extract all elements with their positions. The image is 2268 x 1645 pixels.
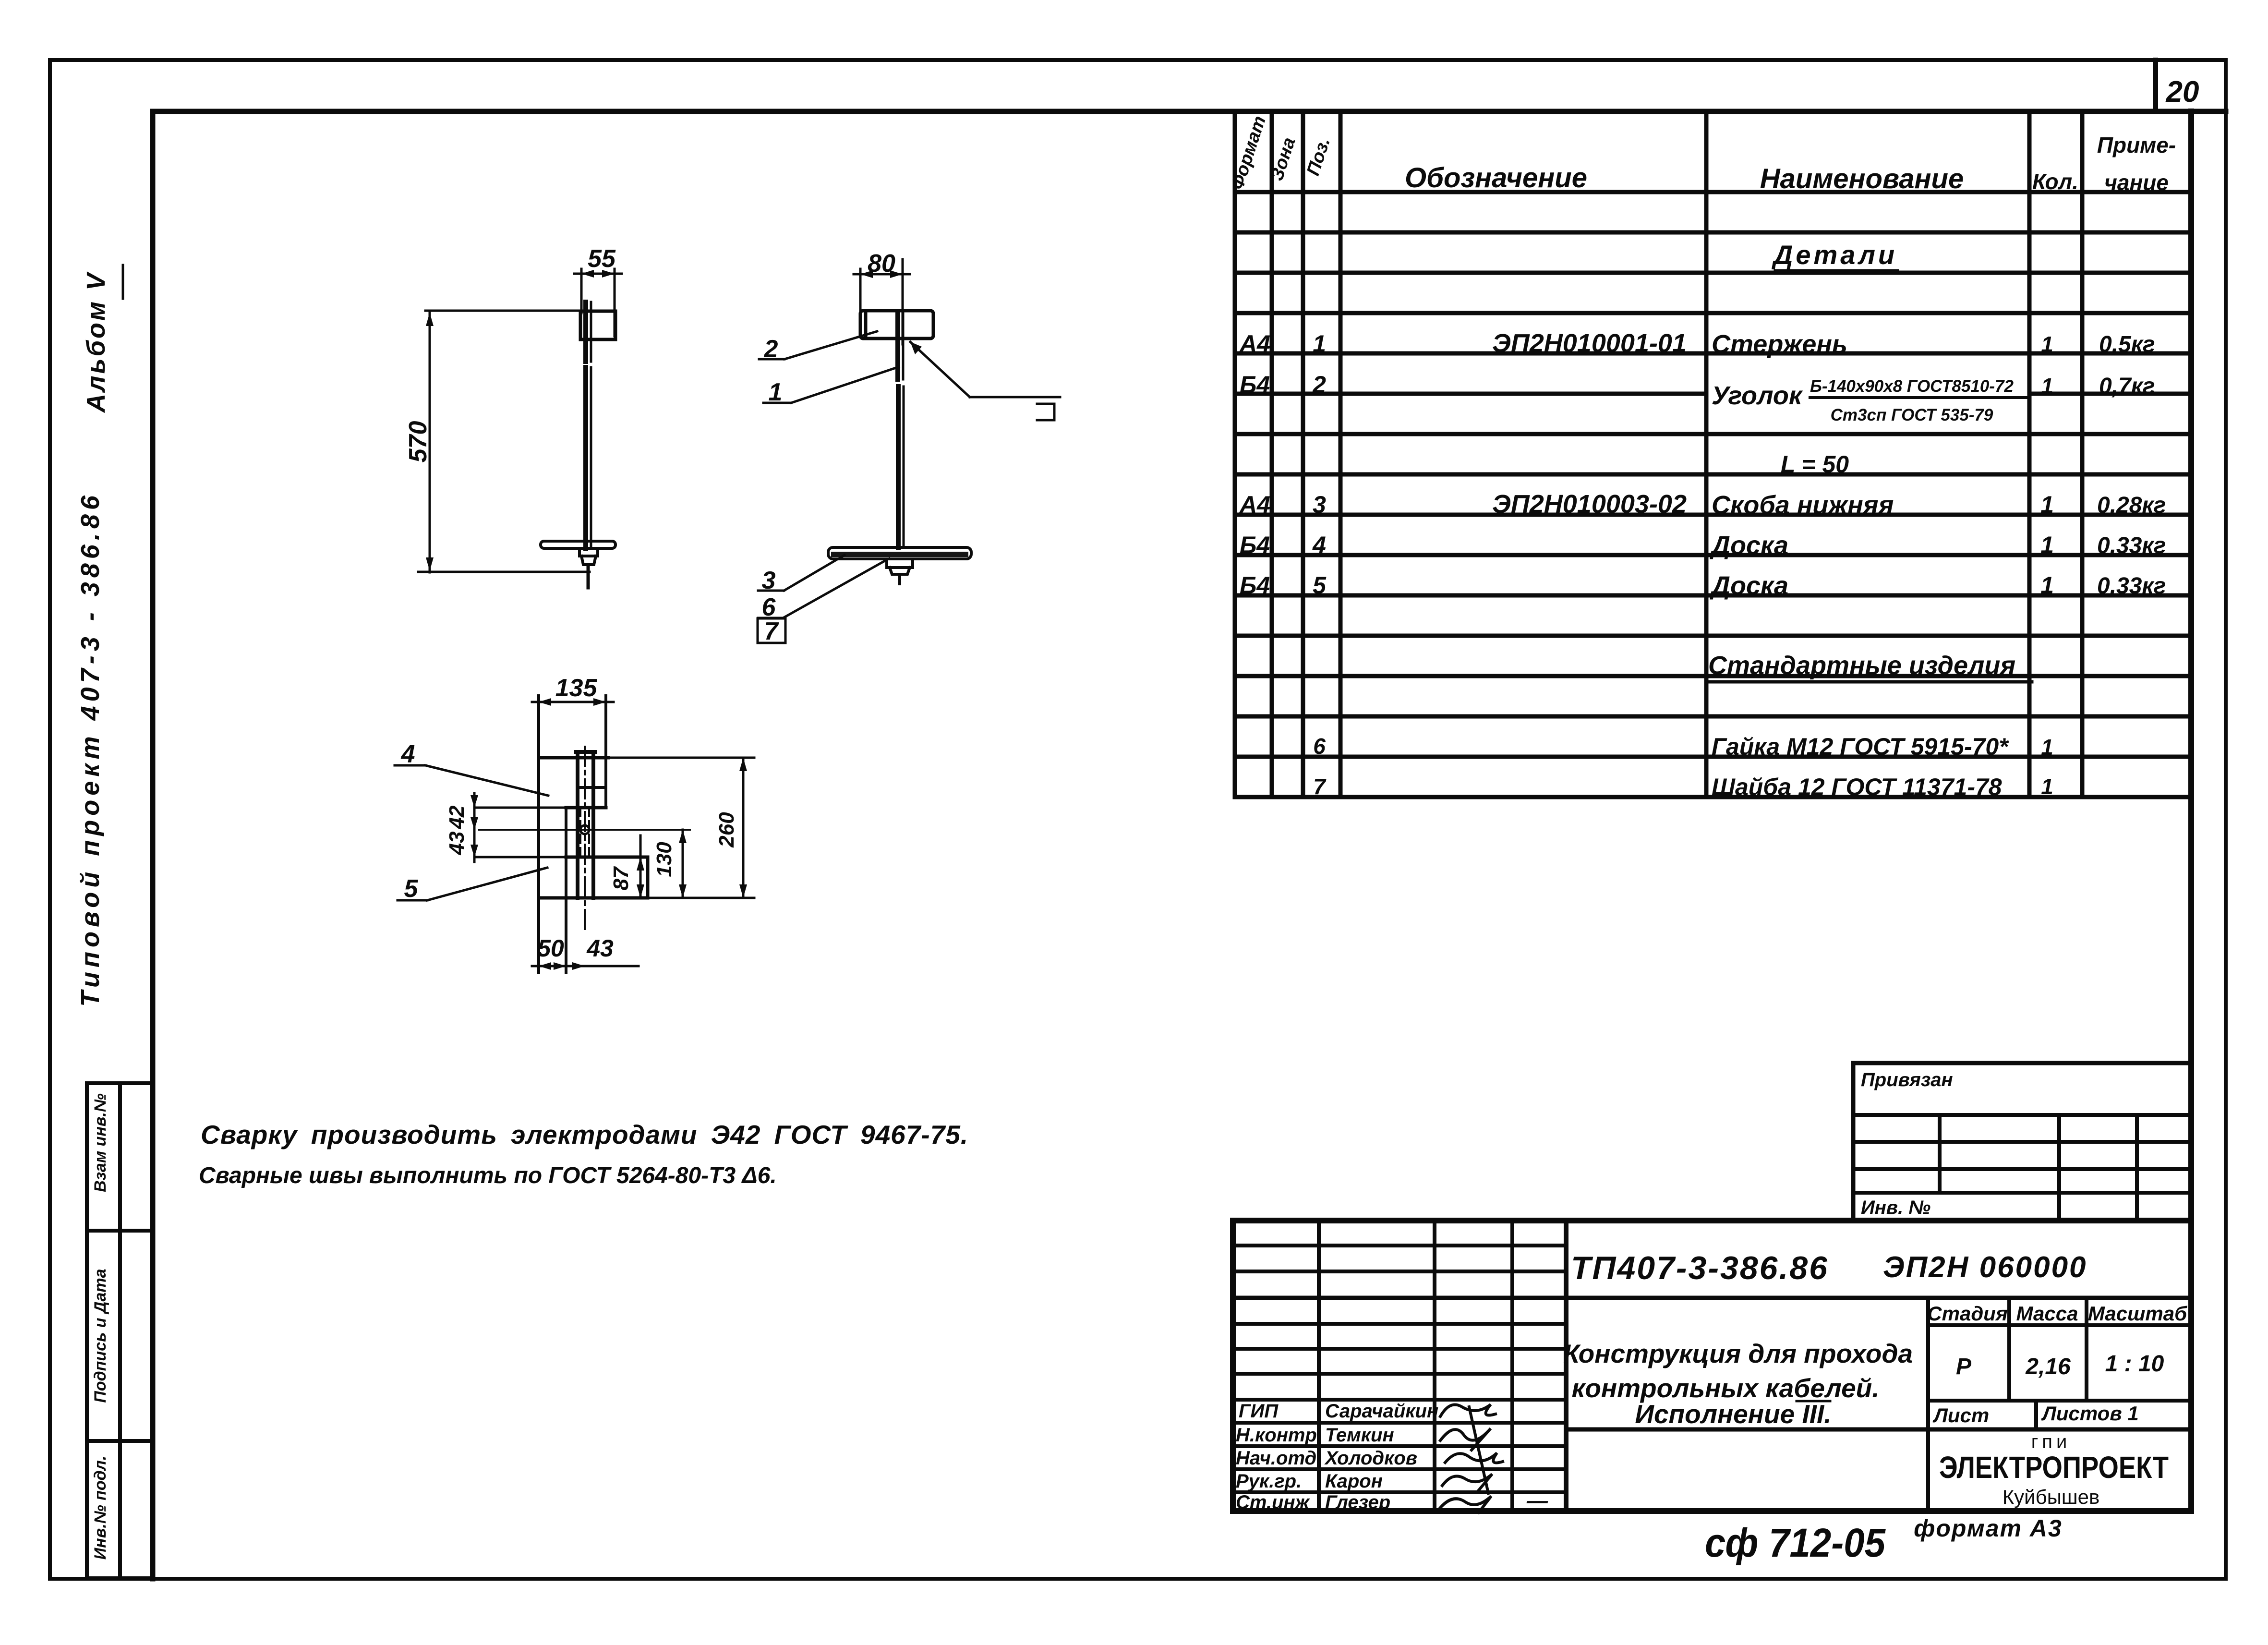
privyaz table horizontals xyxy=(1853,1115,2191,1193)
svg-text:260: 260 xyxy=(715,812,738,848)
right columns verticals xyxy=(1928,1298,2087,1511)
lower board right edge xyxy=(646,857,650,898)
svg-text:7: 7 xyxy=(1313,774,1327,799)
bolt centerline dash-dot xyxy=(584,747,586,930)
svg-text:55: 55 xyxy=(588,245,616,273)
svg-text:2: 2 xyxy=(1312,371,1326,398)
svg-text:чание: чание xyxy=(2104,170,2169,195)
svg-text:Карон: Карон xyxy=(1325,1471,1383,1492)
label 7 box xyxy=(758,618,785,643)
svg-text:L = 50: L = 50 xyxy=(1781,451,1849,478)
svg-text:1: 1 xyxy=(1313,330,1326,357)
svg-text:Сварные швы выполнить по ГОСТ: Сварные швы выполнить по ГОСТ 5264-80-Т3… xyxy=(199,1163,777,1188)
dimension 260 line xyxy=(739,758,747,898)
svg-text:Сарачайкин: Сарачайкин xyxy=(1325,1401,1438,1422)
svg-text:1: 1 xyxy=(2040,491,2054,518)
dimension 130 line xyxy=(679,830,687,898)
svg-text:ЭЛЕКТРОПРОЕКТ: ЭЛЕКТРОПРОЕКТ xyxy=(1939,1450,2169,1485)
svg-text:20: 20 xyxy=(2166,75,2199,109)
svg-text:Н.контр: Н.контр xyxy=(1236,1425,1317,1446)
svg-text:Стадия: Стадия xyxy=(1927,1302,2007,1325)
title block left column verticals xyxy=(1319,1221,1512,1511)
dimension 87 line xyxy=(637,835,644,898)
big cell divider vertical xyxy=(1564,1221,1568,1511)
svg-text:Исполнение III.: Исполнение III. xyxy=(1635,1399,1831,1429)
svg-text:3: 3 xyxy=(1313,491,1326,518)
svg-text:135: 135 xyxy=(555,674,598,702)
svg-text:Инв. №: Инв. № xyxy=(1861,1197,1930,1218)
signatures squiggles xyxy=(1440,1404,1503,1512)
svg-text:ТП407-3-386.86: ТП407-3-386.86 xyxy=(1571,1250,1829,1286)
signature row lines xyxy=(1233,1423,1566,1492)
svg-text:А4: А4 xyxy=(1239,330,1270,357)
svg-text:ГИП: ГИП xyxy=(1239,1401,1279,1422)
svg-text:Уголок: Уголок xyxy=(1712,381,1803,410)
svg-text:ЭП2Н010001-01: ЭП2Н010001-01 xyxy=(1492,329,1687,358)
svg-text:0,28кг: 0,28кг xyxy=(2097,493,2166,518)
dimension 570 line xyxy=(418,311,594,572)
lower plank (pos 3) left view xyxy=(541,541,615,548)
svg-text:Конструкция для прохода: Конструкция для прохода xyxy=(1563,1339,1913,1368)
bottom edge y=1870 + ext xyxy=(539,896,754,900)
svg-text:87: 87 xyxy=(609,866,633,890)
svg-text:1: 1 xyxy=(2040,532,2054,558)
sheet number box xyxy=(2153,60,2158,111)
right long vertical (table/title-block right edge) xyxy=(2188,111,2194,1511)
nut (pos 6) right view xyxy=(887,559,913,584)
leader 1 xyxy=(763,367,899,403)
svg-text:Темкин: Темкин xyxy=(1325,1425,1394,1446)
leader 5 xyxy=(398,868,547,900)
spec table row lines xyxy=(1235,232,2191,797)
svg-text:Приме-: Приме- xyxy=(2097,133,2176,157)
svg-text:Куйбышев: Куйбышев xyxy=(2003,1486,2100,1508)
svg-text:сф 712-05: сф 712-05 xyxy=(1705,1520,1886,1565)
leader 2 xyxy=(759,331,877,359)
leader 3 xyxy=(758,555,844,591)
svg-text:0,7кг: 0,7кг xyxy=(2099,374,2155,399)
weld symbol leader xyxy=(910,342,1060,397)
line y=1682 (42 ext / step bottom) xyxy=(474,807,606,809)
svg-text:Стержень: Стержень xyxy=(1712,330,1847,359)
svg-text:6: 6 xyxy=(1313,734,1326,759)
list row top xyxy=(1928,1399,2191,1403)
svg-text:Ст.инж: Ст.инж xyxy=(1236,1492,1311,1513)
svg-text:570: 570 xyxy=(404,421,432,463)
bracket verticals xyxy=(576,752,595,898)
rod (pos 1) right view xyxy=(898,312,904,547)
bolt hole circle xyxy=(580,825,589,834)
svg-text:—: — xyxy=(1526,1489,1548,1512)
dimension 42/43 line xyxy=(470,793,478,862)
svg-text:1: 1 xyxy=(2040,572,2054,599)
svg-text:Б4: Б4 xyxy=(1240,371,1270,398)
III overline and underline xyxy=(1797,1401,1830,1429)
underline Стандартные изделия xyxy=(1707,680,2032,684)
top plate (pos 2) left view xyxy=(580,311,615,339)
leader 4 xyxy=(395,765,548,796)
board left edge / extension xyxy=(537,696,540,972)
stadia header bottom xyxy=(1928,1323,2191,1327)
leader 6 xyxy=(758,558,889,618)
svg-text:43: 43 xyxy=(586,935,614,962)
weld symbol mark xyxy=(1037,404,1054,420)
spec table header bottom line xyxy=(1235,190,2191,194)
signature rows texts xyxy=(1236,1401,1548,1513)
dimension 135 line xyxy=(532,698,614,706)
svg-text:Р: Р xyxy=(1956,1354,1972,1379)
svg-text:7: 7 xyxy=(764,617,779,645)
svg-text:Альбом V: Альбом V xyxy=(82,271,110,413)
svg-text:0,33кг: 0,33кг xyxy=(2097,573,2166,599)
svg-text:А4: А4 xyxy=(1239,491,1270,518)
top edge of upper board + ext for 260 xyxy=(539,756,754,760)
album V underline xyxy=(122,265,124,299)
svg-text:Обозначение: Обозначение xyxy=(1405,162,1587,194)
svg-text:2: 2 xyxy=(764,335,778,363)
svg-text:Листов 1: Листов 1 xyxy=(2041,1402,2139,1425)
rod (pos 1) left view xyxy=(586,302,591,588)
svg-text:Стандартные изделия: Стандартные изделия xyxy=(1708,651,2015,680)
nut (pos 6) left view xyxy=(579,548,598,565)
hole centerline horizontal xyxy=(479,829,690,831)
svg-text:0,33кг: 0,33кг xyxy=(2097,533,2166,558)
svg-text:Привязан: Привязан xyxy=(1861,1069,1953,1090)
spec table verticals xyxy=(1235,111,2082,797)
name cell bottom / list row bottom xyxy=(1566,1427,2191,1432)
privyaz table verticals xyxy=(1940,1115,2137,1221)
svg-text:Подпись и Дата: Подпись и Дата xyxy=(91,1269,109,1403)
privyaz table outline xyxy=(1853,1063,2191,1221)
svg-text:Ст3сп ГОСТ 535-79: Ст3сп ГОСТ 535-79 xyxy=(1831,406,1993,424)
fraction bar in Уголок row xyxy=(1810,396,2026,399)
svg-text:формат А3: формат А3 xyxy=(1914,1515,2063,1542)
svg-text:Доска: Доска xyxy=(1710,531,1788,560)
vertical x=1262 upper right edge xyxy=(604,696,607,808)
svg-text:Кол.: Кол. xyxy=(2032,169,2078,194)
bracket step xyxy=(577,786,606,789)
svg-text:50: 50 xyxy=(537,935,564,962)
svg-text:Масса: Масса xyxy=(2016,1302,2078,1325)
svg-text:1: 1 xyxy=(769,378,783,406)
svg-text:Б4: Б4 xyxy=(1240,572,1270,599)
svg-text:ЭП2Н010003-02: ЭП2Н010003-02 xyxy=(1492,490,1687,519)
svg-text:Шайба 12 ГОСТ 11371-78: Шайба 12 ГОСТ 11371-78 xyxy=(1712,774,2002,800)
svg-text:Инв.№ подл.: Инв.№ подл. xyxy=(91,1456,109,1560)
svg-text:3: 3 xyxy=(762,567,776,594)
svg-text:4: 4 xyxy=(401,740,415,768)
svg-text:Лист: Лист xyxy=(1932,1404,1989,1427)
svg-text:Б4: Б4 xyxy=(1240,532,1270,558)
svg-text:Взам инв.№: Взам инв.№ xyxy=(91,1093,109,1192)
svg-text:Поз.: Поз. xyxy=(1303,135,1334,179)
svg-text:1 : 10: 1 : 10 xyxy=(2105,1351,2164,1377)
svg-text:1: 1 xyxy=(2041,774,2053,799)
svg-text:Гайка М12 ГОСТ 5915-70*: Гайка М12 ГОСТ 5915-70* xyxy=(1712,733,2009,760)
svg-text:4: 4 xyxy=(1312,532,1326,558)
line y=1785 (43 ext / lower board top) xyxy=(474,856,648,859)
svg-text:Детали: Детали xyxy=(1772,240,1897,270)
svg-text:Наименование: Наименование xyxy=(1760,163,1964,194)
underline Детали xyxy=(1775,269,1897,273)
svg-text:43: 43 xyxy=(445,832,469,856)
lower plank (pos 3) right view with hatching xyxy=(828,547,971,559)
svg-text:Масштаб: Масштаб xyxy=(2088,1302,2187,1325)
dimension 80 line xyxy=(854,259,910,344)
svg-text:Рук.гр.: Рук.гр. xyxy=(1236,1471,1302,1492)
svg-text:2,16: 2,16 xyxy=(2025,1354,2071,1379)
vertical x=1179 xyxy=(565,808,567,972)
svg-text:Скоба нижняя: Скоба нижняя xyxy=(1712,491,1894,520)
svg-text:контрольных кабелей.: контрольных кабелей. xyxy=(1571,1373,1879,1403)
left margin stamp boxes xyxy=(87,1083,153,1578)
svg-text:130: 130 xyxy=(652,842,676,877)
svg-text:Нач.отд: Нач.отд xyxy=(1236,1448,1316,1469)
bottom dims line xyxy=(532,962,639,970)
svg-text:0,5кг: 0,5кг xyxy=(2099,332,2155,357)
svg-text:Холодков: Холодков xyxy=(1324,1448,1417,1469)
svg-text:1: 1 xyxy=(2041,735,2053,760)
svg-text:Сварку производить электродами: Сварку производить электродами Э42 ГОСТ … xyxy=(201,1120,968,1149)
svg-text:Глезер: Глезер xyxy=(1325,1492,1390,1513)
svg-text:ЭП2Н 060000: ЭП2Н 060000 xyxy=(1883,1251,2087,1284)
svg-text:5: 5 xyxy=(404,875,419,903)
top plate (pos 2) right view xyxy=(860,311,933,339)
left part narrow row lines xyxy=(1233,1246,1566,1400)
spec table column headers xyxy=(1227,113,2176,195)
svg-text:1: 1 xyxy=(2041,332,2053,357)
spec table rows content xyxy=(1239,240,2166,800)
svg-text:42: 42 xyxy=(445,805,469,829)
svg-text:гпи: гпи xyxy=(2031,1431,2071,1452)
svg-text:1: 1 xyxy=(2041,374,2053,399)
svg-text:Б-140х90х8 ГОСТ8510-72: Б-140х90х8 ГОСТ8510-72 xyxy=(1810,377,2014,396)
designation strip bottom line xyxy=(1233,1296,2191,1300)
svg-text:Типовой проект 407-3 - 386.86: Типовой проект 407-3 - 386.86 xyxy=(76,491,105,1007)
svg-text:5: 5 xyxy=(1313,572,1327,599)
svg-text:Доска: Доска xyxy=(1710,571,1788,600)
title block outline xyxy=(1233,1221,2191,1511)
dimension 55 line xyxy=(574,269,622,336)
bolt hidden lines xyxy=(580,808,589,857)
